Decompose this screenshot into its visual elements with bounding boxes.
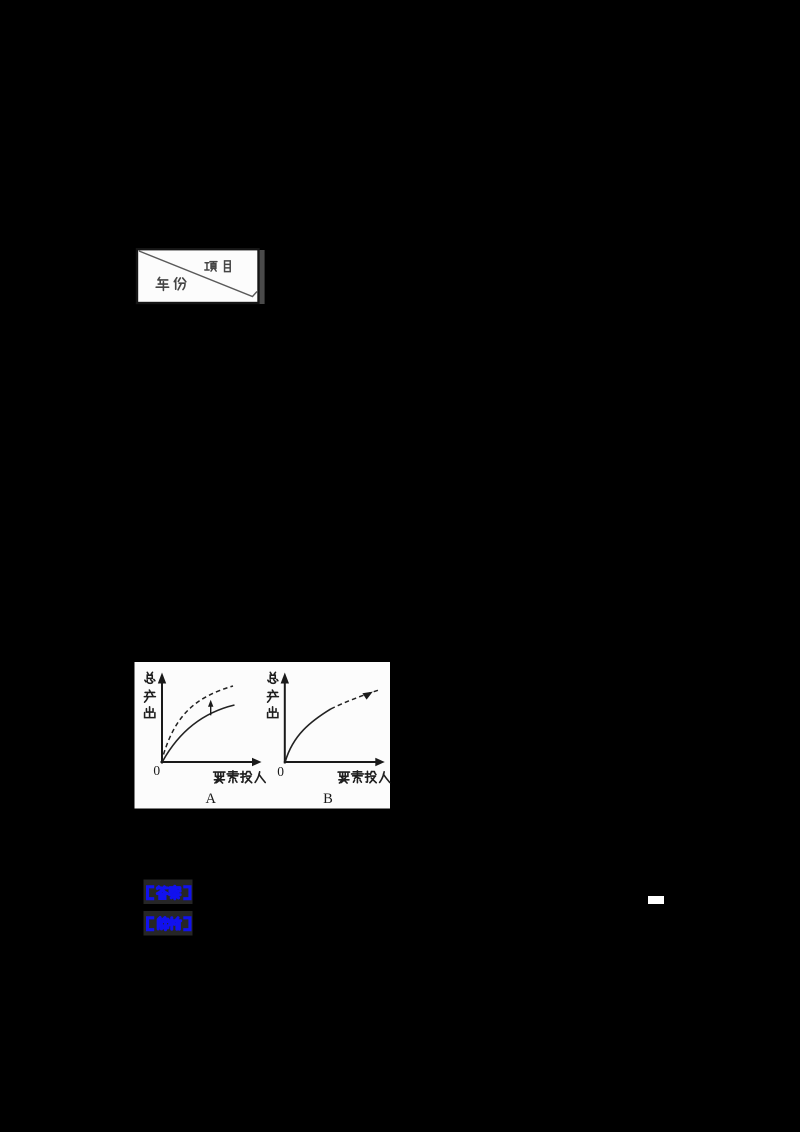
label 项目 — [205, 261, 230, 272]
chart B arrowhead on dashed curve — [362, 692, 372, 700]
answer label highlight box 1 — [144, 880, 193, 905]
table column gray strip — [260, 250, 265, 304]
chart A y-axis — [158, 673, 166, 764]
svg-text:0: 0 — [277, 764, 284, 779]
svg-text:A: A — [206, 791, 217, 807]
blue text 【答案】 — [148, 886, 190, 898]
chart B x label 要素投入 — [338, 771, 390, 783]
chart A y label 总产出 — [144, 672, 155, 717]
chart A small up arrow — [208, 700, 213, 716]
svg-text:0: 0 — [153, 763, 160, 778]
chart A x label 要素投入 — [214, 771, 266, 783]
chart panel white box — [135, 662, 391, 809]
chart B y-axis — [281, 673, 289, 764]
chart A dashed curve — [164, 686, 234, 755]
chart B dashed curve — [331, 690, 378, 709]
table header cell box — [137, 249, 259, 303]
chart A x-axis — [161, 758, 262, 766]
svg-text:B: B — [323, 791, 333, 807]
chart B x-axis — [284, 758, 385, 766]
chart B solid curve — [285, 709, 331, 762]
table diagonal line — [139, 251, 257, 297]
chart A solid curve — [163, 705, 235, 762]
answer label highlight box 2 — [144, 911, 193, 936]
blue text 【解析】 — [148, 918, 190, 930]
small white dash — [648, 896, 664, 904]
chart B y label 总产出 — [267, 672, 278, 717]
label 年份 — [156, 277, 186, 290]
